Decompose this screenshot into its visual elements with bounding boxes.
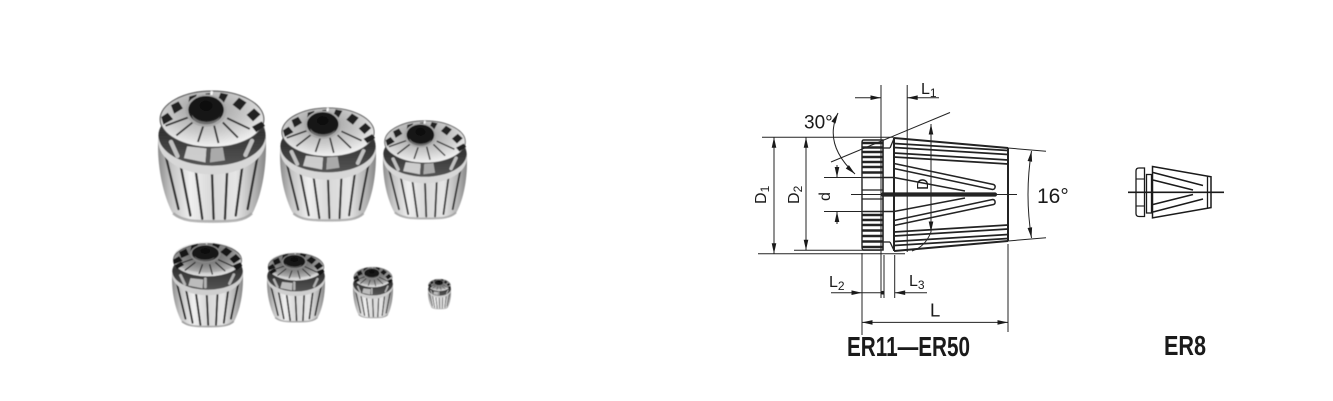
svg-text:L1: L1	[921, 81, 937, 100]
svg-text:D1: D1	[753, 185, 772, 204]
svg-text:30°: 30°	[804, 113, 833, 134]
svg-text:D2: D2	[786, 185, 805, 204]
svg-text:16°: 16°	[1037, 185, 1069, 208]
svg-text:d: d	[817, 192, 834, 201]
svg-text:L2: L2	[829, 274, 845, 293]
svg-text:ER8: ER8	[1164, 330, 1206, 361]
svg-text:L: L	[930, 300, 940, 321]
svg-text:ER11—ER50: ER11—ER50	[847, 331, 970, 362]
svg-text:L3: L3	[909, 273, 925, 292]
svg-text:D: D	[915, 178, 932, 190]
